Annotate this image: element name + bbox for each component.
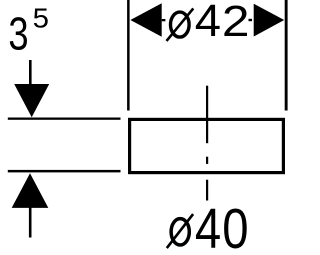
svg-text:4: 4 xyxy=(195,0,221,46)
down arrowhead xyxy=(14,84,49,117)
dimension line stub left xyxy=(162,19,166,21)
leader tail of down arrow xyxy=(29,60,32,85)
svg-text:3: 3 xyxy=(8,7,28,59)
extension line top of height dim xyxy=(8,118,121,120)
dimension text ø42: diameter symbol xyxy=(167,8,194,41)
svg-text:5: 5 xyxy=(33,3,49,34)
up arrowhead xyxy=(12,173,49,208)
dimension text 3 xyxy=(8,7,28,59)
dimension text ø40: digit 4 xyxy=(195,198,221,255)
dimension text ø42: digit 2 xyxy=(222,0,250,45)
dimension text ø40: diameter symbol xyxy=(167,214,193,248)
svg-text:4: 4 xyxy=(195,198,221,250)
superscript tolerance 5 xyxy=(33,3,49,34)
right arrowhead of diameter dim xyxy=(254,4,285,37)
dimension text ø40: digit 0 xyxy=(222,198,248,255)
svg-text:0: 0 xyxy=(222,198,248,250)
body rectangle (side view) xyxy=(130,119,284,172)
centerline segment A xyxy=(206,86,208,144)
dimension line stub right xyxy=(249,19,253,21)
centerline segment C xyxy=(206,180,208,201)
extension line right (diameter dim) xyxy=(285,0,288,111)
centerline dash B xyxy=(206,157,208,164)
extension line bottom of height dim xyxy=(8,170,121,173)
left arrowhead of diameter dim xyxy=(130,3,161,36)
extension line left (diameter dim) xyxy=(127,0,130,111)
svg-text:2: 2 xyxy=(222,0,250,45)
leader tail of up arrow xyxy=(29,208,32,238)
dimension text ø42: digit 4 xyxy=(195,0,221,46)
